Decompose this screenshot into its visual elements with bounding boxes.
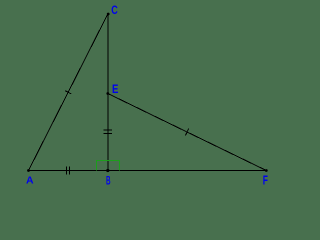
segment AF <box>29 170 267 172</box>
segment EF <box>108 94 266 171</box>
segment CB <box>107 14 109 171</box>
point C <box>107 13 110 16</box>
svg-text:C: C <box>111 4 118 18</box>
svg-text:F: F <box>263 174 268 188</box>
tick mark on EF <box>185 128 188 135</box>
tick mark on AC <box>65 91 71 94</box>
double tick on EB <box>104 129 112 131</box>
svg-text:E: E <box>112 83 118 96</box>
svg-text:B: B <box>106 175 111 187</box>
point E <box>106 92 109 95</box>
segment AC <box>29 14 108 171</box>
double tick on AB <box>66 166 68 174</box>
right angle marker at B (green dashed double square) <box>96 160 119 170</box>
svg-text:A: A <box>26 175 34 187</box>
point F <box>265 169 268 172</box>
point A <box>27 169 30 172</box>
point B <box>106 169 109 172</box>
